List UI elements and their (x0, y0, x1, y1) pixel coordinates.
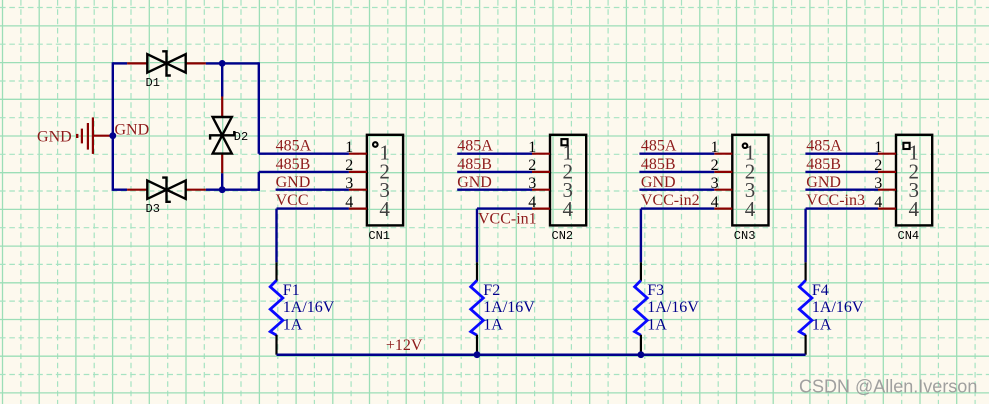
svg-text:VCC-in3: VCC-in3 (806, 192, 865, 209)
svg-text:485B: 485B (276, 156, 311, 173)
svg-text:F4: F4 (812, 282, 829, 299)
svg-text:1A: 1A (483, 317, 503, 334)
svg-text:1: 1 (345, 139, 353, 156)
svg-text:+12V: +12V (386, 337, 423, 354)
svg-text:4: 4 (562, 197, 573, 221)
svg-text:1A: 1A (812, 317, 832, 334)
svg-text:2: 2 (345, 157, 353, 174)
svg-text:485A: 485A (276, 137, 312, 154)
svg-text:GND: GND (276, 174, 311, 191)
svg-text:1A/16V: 1A/16V (483, 299, 535, 316)
svg-text:485B: 485B (806, 156, 841, 173)
svg-text:D2: D2 (234, 130, 248, 144)
svg-text:1A: 1A (283, 317, 303, 334)
svg-text:485B: 485B (641, 156, 676, 173)
svg-text:GND: GND (37, 129, 72, 146)
svg-text:3: 3 (345, 175, 353, 192)
svg-text:F1: F1 (283, 282, 300, 299)
svg-text:1A/16V: 1A/16V (647, 299, 699, 316)
svg-text:CN3: CN3 (734, 229, 756, 243)
svg-text:VCC: VCC (276, 192, 309, 209)
svg-text:485A: 485A (457, 137, 493, 154)
svg-text:F3: F3 (647, 282, 664, 299)
svg-text:GND: GND (641, 174, 676, 191)
svg-text:485B: 485B (457, 156, 492, 173)
svg-text:GND: GND (806, 174, 841, 191)
svg-text:4: 4 (908, 197, 919, 221)
svg-text:485A: 485A (806, 137, 842, 154)
svg-text:VCC-in2: VCC-in2 (641, 192, 700, 209)
svg-text:VCC-in1: VCC-in1 (478, 210, 537, 227)
svg-text:GND: GND (115, 122, 150, 139)
svg-text:4: 4 (379, 197, 390, 221)
svg-text:485A: 485A (641, 137, 677, 154)
svg-text:CN4: CN4 (898, 229, 920, 243)
svg-text:D3: D3 (146, 202, 160, 216)
svg-text:1A/16V: 1A/16V (283, 299, 335, 316)
svg-text:CN1: CN1 (368, 229, 390, 243)
svg-text:4: 4 (345, 194, 353, 211)
svg-text:CN2: CN2 (552, 229, 574, 243)
svg-text:F2: F2 (483, 282, 500, 299)
svg-text:1A/16V: 1A/16V (812, 299, 864, 316)
svg-text:1A: 1A (647, 317, 667, 334)
svg-text:CSDN @Allen.Iverson: CSDN @Allen.Iverson (799, 377, 977, 397)
svg-text:D1: D1 (146, 76, 160, 90)
svg-text:GND: GND (457, 174, 492, 191)
svg-text:4: 4 (745, 197, 756, 221)
